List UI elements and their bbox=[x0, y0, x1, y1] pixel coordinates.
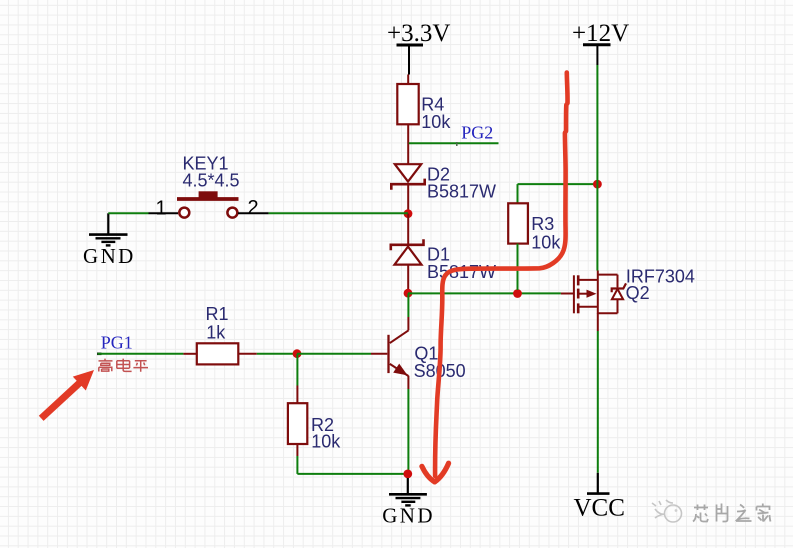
svg-text:R3: R3 bbox=[531, 214, 554, 234]
annotation text 高电平 bbox=[99, 359, 149, 372]
ground (bottom) bbox=[382, 478, 435, 528]
mosfet Q2 IRF7304 bbox=[574, 267, 695, 314]
wire MOSFET to VCC bbox=[597, 313, 599, 473]
watermark logo bbox=[652, 500, 682, 522]
annotation red curved arrow bbox=[422, 73, 568, 482]
svg-text:10k: 10k bbox=[311, 432, 341, 452]
diode D2 B5817W bbox=[391, 164, 496, 210]
svg-text:Q2: Q2 bbox=[626, 283, 650, 303]
svg-text:+3.3V: +3.3V bbox=[387, 20, 450, 47]
wire R3 top to +12V rail bbox=[518, 183, 598, 185]
svg-text:PG1: PG1 bbox=[101, 333, 133, 353]
svg-text:GND: GND bbox=[83, 244, 136, 268]
pushbutton KEY1 bbox=[177, 153, 240, 217]
wire GND to KEY1 pin1 bbox=[108, 212, 178, 214]
wire PG1 to R1 bbox=[97, 352, 197, 355]
wire +3.3V to R4 bbox=[407, 75, 409, 86]
resistor R4 bbox=[397, 84, 451, 132]
diode D1 B5817W bbox=[391, 239, 496, 290]
junction node D2/D1/KEY1 bbox=[404, 209, 413, 218]
wire KEY1 pin2 to node bbox=[238, 212, 408, 214]
svg-text:1: 1 bbox=[156, 198, 167, 220]
wire node to R2 bbox=[296, 354, 298, 404]
svg-text:B5817W: B5817W bbox=[427, 181, 496, 201]
wire node to Q1 base bbox=[297, 353, 387, 355]
svg-text:VCC: VCC bbox=[574, 495, 625, 522]
resistor R2 bbox=[288, 403, 341, 451]
wire R4 to D2 bbox=[407, 124, 409, 164]
wire node to D1 bbox=[407, 214, 409, 245]
transistor Q1 S8050 bbox=[389, 330, 466, 381]
wire net PG2 bbox=[409, 142, 499, 144]
junction R1/R2/Q1 base bbox=[293, 349, 302, 358]
wire R2 to GND rail bbox=[297, 444, 407, 474]
svg-text:R1: R1 bbox=[206, 304, 229, 324]
svg-text:10k: 10k bbox=[421, 112, 451, 132]
junction emitter/R2/GND bbox=[403, 470, 412, 479]
resistor R1 bbox=[197, 304, 239, 365]
wire Q1 collector bbox=[407, 293, 409, 330]
ground (left) bbox=[83, 213, 136, 267]
watermark text 芯片之家 bbox=[693, 504, 771, 522]
wire R1 to node bbox=[238, 353, 297, 355]
wire node to MOSFET gate bbox=[408, 292, 573, 294]
power +3.3V bbox=[387, 20, 450, 75]
junction node D1/Q1/R3 rail bbox=[404, 289, 413, 298]
resistor R3 bbox=[508, 184, 561, 290]
svg-text:B5817W: B5817W bbox=[427, 262, 496, 282]
annotation red arrow (left) bbox=[41, 370, 94, 418]
wire Q1 emitter to GND bbox=[407, 376, 409, 470]
svg-text:PG2: PG2 bbox=[461, 123, 493, 143]
svg-text:1k: 1k bbox=[206, 322, 226, 342]
svg-text:GND: GND bbox=[382, 504, 435, 528]
power VCC bbox=[574, 473, 625, 522]
junction +12V rail bbox=[593, 180, 602, 189]
power +12V bbox=[572, 20, 629, 65]
svg-text:10k: 10k bbox=[531, 233, 561, 253]
wire +12V rail bbox=[596, 65, 598, 271]
svg-text:2: 2 bbox=[248, 197, 259, 219]
svg-text:4.5*4.5: 4.5*4.5 bbox=[183, 170, 240, 190]
junction R3 bottom bbox=[513, 289, 522, 298]
svg-text:+12V: +12V bbox=[572, 20, 629, 47]
